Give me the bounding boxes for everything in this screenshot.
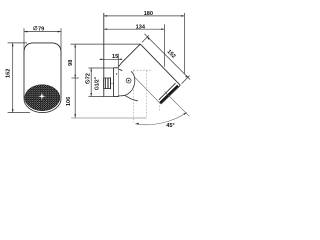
side view wall line <box>103 13 105 97</box>
dimension 162 arrow bottom <box>12 109 14 112</box>
dimension d72 line <box>90 68 92 96</box>
45 degree label background <box>166 122 175 128</box>
head cylinder fill <box>121 44 180 104</box>
dimension 15 line <box>100 58 123 60</box>
connector center line <box>111 82 114 84</box>
spray face inner rim line <box>159 83 176 100</box>
dimension 15 arrow right <box>118 58 121 60</box>
svg-text:79: 79 <box>38 27 44 33</box>
45 degree axis line <box>165 92 190 117</box>
svg-text:98: 98 <box>68 60 74 66</box>
svg-text:72: 72 <box>86 73 92 79</box>
spray face star highlight <box>38 93 46 101</box>
housing neck top edge <box>119 69 123 71</box>
dimension d72 arrow bottom <box>90 93 92 96</box>
dimension 106 line <box>74 78 76 118</box>
dimension 152 arrow upper <box>148 37 150 40</box>
dimension 98 extension line top <box>71 43 141 45</box>
ball joint housing outline <box>119 71 135 96</box>
dimension 180 line <box>104 15 185 17</box>
dimension 152 arrow lower <box>185 75 188 77</box>
dimension 180 arrow left <box>104 15 107 17</box>
dimension 152 line <box>145 34 191 80</box>
svg-text:134: 134 <box>136 24 146 30</box>
dimension d79 arrow left <box>24 31 27 33</box>
dimension 152 extension from face corner <box>182 76 190 84</box>
dimension 162 arrow top <box>12 43 14 46</box>
front view spray face with nozzle pattern <box>25 85 60 111</box>
dimension 106 extension line bottom <box>71 117 147 119</box>
45 degree arc arrow left <box>135 123 139 125</box>
dimension 15 extension line <box>117 54 119 68</box>
hidden head down position right side dashed <box>159 70 161 110</box>
45 degree dimension arc <box>135 113 187 125</box>
dimension 180 extension line right <box>183 13 185 74</box>
spray face plate thick band <box>160 86 178 103</box>
dimension 106 arrow bottom <box>74 114 76 117</box>
head cap to flange edge <box>119 63 122 67</box>
dimension 98 arrow top <box>74 44 76 47</box>
hidden head down position top dashed <box>133 69 152 71</box>
front view bottom rim ellipse <box>24 99 61 113</box>
front view shower head body outline <box>24 43 61 99</box>
svg-text:180: 180 <box>144 11 153 17</box>
dimension 15 arrow left <box>101 58 104 60</box>
dimension d72 extension line bottom <box>89 95 114 97</box>
flange screw dot <box>116 73 117 74</box>
dimension d72 extension line top <box>89 67 114 69</box>
head upper edge <box>140 44 180 85</box>
head lower edge (partly hidden by ball joint) <box>121 63 161 104</box>
ball joint housing fill <box>119 63 135 96</box>
dimension 134 arrow right <box>161 28 164 30</box>
dimension 98 line <box>74 44 76 78</box>
hidden head down position center line dashed <box>146 70 148 118</box>
dimension 134 line <box>104 28 165 30</box>
head cap edge <box>121 44 140 63</box>
dimension d79 extension line right <box>60 28 62 57</box>
dimension 180 arrow right <box>181 15 184 17</box>
dimension 162 extension line top <box>8 42 27 44</box>
dimension 98 arrow bottom <box>74 75 76 78</box>
svg-text:106: 106 <box>66 97 72 106</box>
dimension 134 arrow left <box>104 28 107 30</box>
pivot center dot <box>128 80 130 82</box>
dimension 98 chain tick <box>72 77 80 79</box>
inlet connector nut <box>104 78 111 89</box>
dimension d79 line <box>24 31 61 33</box>
clamp lower curve <box>125 95 138 101</box>
dimension 162 line <box>12 43 14 113</box>
pivot circle <box>126 78 131 83</box>
svg-text:45°: 45° <box>166 123 174 129</box>
dimension d72 arrow top <box>90 68 92 71</box>
svg-text:162: 162 <box>6 69 12 78</box>
dimension 162 extension line bottom <box>8 112 30 114</box>
dimension d72 diameter symbol <box>86 80 90 84</box>
dimension d79 extension line left <box>23 28 25 57</box>
wall flange plate <box>114 68 119 97</box>
svg-text:15: 15 <box>112 54 118 60</box>
spray face outer edge <box>161 85 180 104</box>
dimension 152 extension from cap corner <box>142 35 149 42</box>
45 degree arc arrow right <box>184 113 187 116</box>
dimension d79 arrow right <box>58 31 61 33</box>
svg-text:G1/2″: G1/2″ <box>95 76 101 90</box>
hidden head down position left side dashed <box>132 70 134 122</box>
dimension 134 extension line right <box>164 24 166 67</box>
dimension d79 diameter symbol <box>33 26 37 30</box>
